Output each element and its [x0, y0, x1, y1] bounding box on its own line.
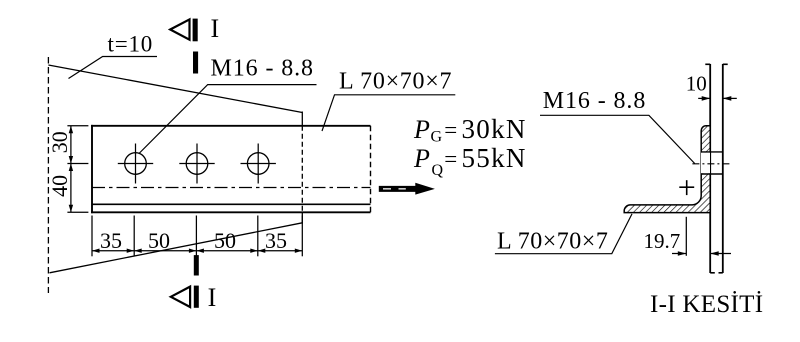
dim 19.7 arrows	[672, 253, 686, 255]
L70 leader (elevation)	[322, 95, 455, 131]
angle L70x70x7 section (hatched)	[624, 126, 710, 213]
bolt hole 3	[241, 144, 276, 184]
bottom dim arrows	[92, 249, 100, 253]
svg-text:G: G	[431, 129, 443, 146]
left dimension extension ticks	[67, 125, 88, 127]
bolt axis dash-dot	[692, 163, 729, 165]
gusset plate right edge hidden behind angle (dashed)	[301, 126, 303, 213]
svg-text:55kN: 55kN	[462, 143, 527, 173]
section mark top: lower thick bar	[193, 52, 198, 74]
gusset plate top slanted edge	[48, 65, 302, 113]
angle outstanding leg edge line	[92, 203, 371, 205]
angle elevation right edge (break, dashed)	[370, 126, 372, 213]
M16 leader (section)	[540, 115, 695, 163]
svg-text:40: 40	[47, 175, 72, 197]
gusset plate bottom slanted edge	[50, 223, 303, 273]
svg-text:M16 - 8.8: M16 - 8.8	[211, 56, 314, 82]
left dim arrows	[69, 126, 73, 134]
section mark bottom: thick bar	[194, 255, 199, 275]
plate top break ticks	[705, 63, 710, 65]
angle elevation left edge	[91, 125, 93, 213]
svg-text:19.7: 19.7	[644, 229, 681, 253]
section mark top: thick bar	[193, 19, 198, 42]
bolt hole through leg and plate (section)	[701, 153, 710, 174]
gusset plate right edge (visible above angle)	[301, 112, 303, 126]
section mark bottom: view triangle	[171, 287, 190, 307]
force arrow	[379, 183, 435, 195]
section mark bottom: thick bar	[194, 286, 199, 308]
svg-text:=: =	[444, 146, 457, 171]
gusset plate right face (section)	[722, 64, 724, 273]
centroidal axis dash-dot line	[92, 187, 371, 189]
svg-text:I: I	[208, 283, 217, 312]
svg-text:30: 30	[47, 131, 72, 153]
force arrow centerline white dashes	[383, 188, 391, 189]
svg-text:30kN: 30kN	[462, 114, 527, 144]
svg-text:L 70×70×7: L 70×70×7	[339, 69, 452, 95]
L70 leader (section)	[495, 214, 632, 254]
M16 leader (elevation)	[139, 85, 317, 154]
svg-text:50: 50	[214, 228, 236, 253]
dim 10 arrows	[698, 97, 710, 99]
gusset plate left face (section)	[709, 64, 711, 273]
svg-text:10: 10	[686, 71, 707, 95]
svg-text:35: 35	[100, 228, 122, 253]
svg-text:t=10: t=10	[108, 31, 154, 56]
angle elevation bottom edge	[91, 211, 371, 213]
svg-text:L 70×70×7: L 70×70×7	[497, 228, 608, 254]
bolt hole 1	[118, 144, 153, 184]
svg-text:=: =	[444, 118, 457, 143]
plate bottom break ticks	[710, 272, 715, 274]
section mark top: view triangle	[170, 19, 189, 39]
dim 19.7 extension line	[685, 217, 687, 256]
svg-text:50: 50	[148, 228, 170, 253]
svg-text:P: P	[413, 144, 430, 173]
svg-text:P: P	[413, 115, 430, 144]
svg-text:I: I	[211, 14, 220, 43]
svg-text:Q: Q	[432, 162, 444, 179]
gusset plate right edge (visible below angle)	[301, 212, 303, 223]
left dimension line	[70, 126, 72, 213]
svg-text:35: 35	[265, 228, 287, 253]
svg-text:M16 - 8.8: M16 - 8.8	[543, 88, 646, 114]
wall dashed line (gusset support face)	[47, 57, 49, 293]
angle L70x70x7 elevation outline: top edge	[91, 125, 371, 127]
centroid cross	[679, 186, 694, 188]
bottom dimension extension lines	[91, 216, 93, 257]
bottom dimension line	[92, 250, 302, 252]
bolt hole 2	[179, 144, 214, 184]
svg-text:I-I KESİTİ: I-I KESİTİ	[650, 291, 763, 318]
t=10 leader underline	[69, 57, 158, 79]
